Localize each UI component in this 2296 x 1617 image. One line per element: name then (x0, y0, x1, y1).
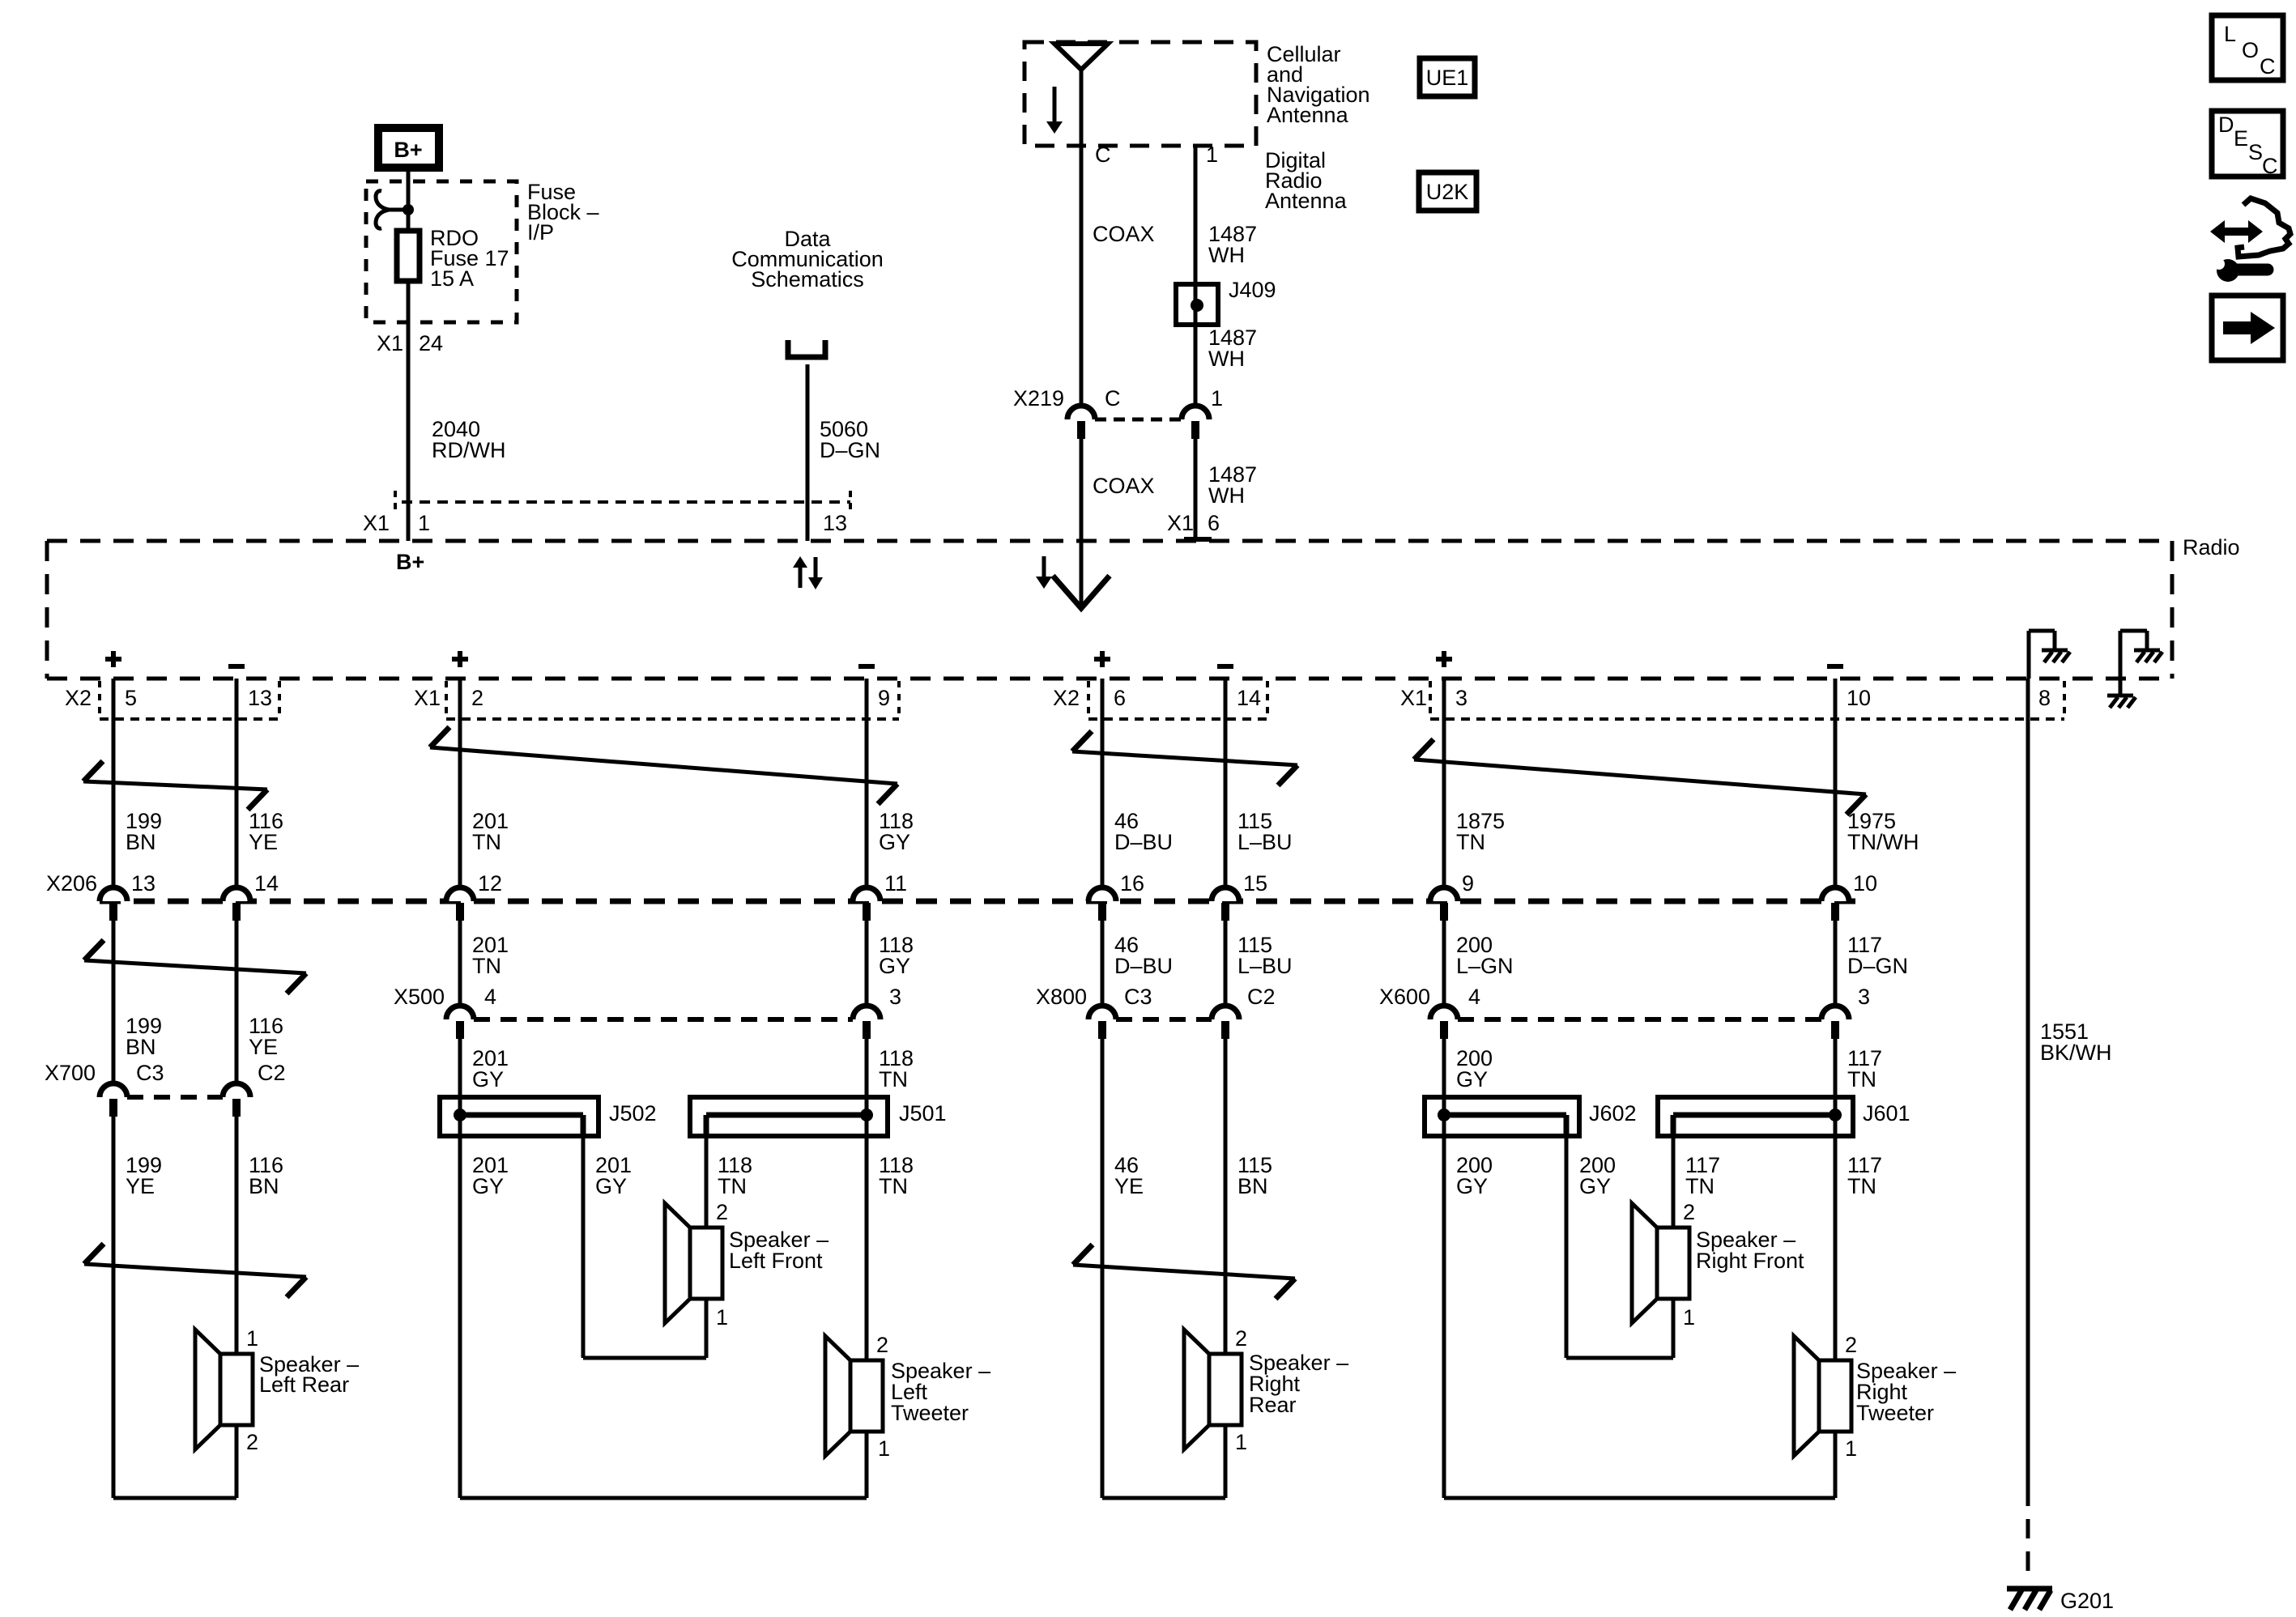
ground G201 symbol (2007, 1586, 2052, 1592)
X600 stub 4 (1440, 1021, 1448, 1039)
antenna mast wire (COAX) (1080, 70, 1084, 406)
X206 arc pin 15 (1212, 887, 1239, 901)
svg-text:Left Rear: Left Rear (259, 1372, 349, 1397)
wire bottom loop right front/tweeter (1444, 1496, 1835, 1500)
svg-text:YE: YE (249, 830, 278, 854)
wire J601 branch to RF speaker feed (1672, 1136, 1676, 1228)
X500 arc pin 3 (853, 1006, 880, 1019)
svg-text:C: C (1095, 143, 1111, 167)
wire J502 branch to LF speaker return (581, 1136, 586, 1358)
svg-text:C: C (2260, 54, 2276, 79)
wire B+ to fuse block (407, 172, 411, 230)
svg-text:14: 14 (1237, 686, 1261, 710)
twisted pair symbol RF above X206 (1414, 760, 1866, 794)
polarity + at pin x=1783 (1436, 657, 1452, 662)
svg-text:GY: GY (879, 954, 910, 978)
X500 stub 4 (456, 1021, 464, 1039)
svg-text:D–GN: D–GN (1847, 954, 1908, 978)
splice pack J602 (1425, 1097, 1579, 1136)
junction dot at fuse (403, 204, 414, 215)
B+ power symbol (378, 128, 439, 168)
svg-text:13: 13 (248, 686, 272, 710)
icon adjust: hand outline (2238, 198, 2290, 257)
polarity + at pin x=1361 (1094, 657, 1110, 662)
wire 1487 to radio pin X1-6 (1194, 439, 1198, 541)
svg-text:D–GN: D–GN (820, 438, 880, 462)
wire X700-C2 down to left rear speaker (235, 1117, 239, 1354)
X206 pin stub 15 (1221, 903, 1229, 921)
svg-text:TN: TN (1685, 1174, 1715, 1198)
X500 stub 3 (863, 1021, 871, 1039)
svg-text:C2: C2 (1247, 985, 1276, 1009)
svg-text:16: 16 (1120, 871, 1144, 896)
wire radio to X206 x=1513 (1224, 679, 1228, 887)
wire RF speaker pin1 down (1672, 1299, 1676, 1358)
case ground wire below radio (2119, 679, 2123, 694)
svg-text:UE1: UE1 (1426, 66, 1469, 90)
svg-text:1: 1 (878, 1436, 890, 1461)
wire J602 branch to RF speaker return (1565, 1136, 1569, 1358)
connector dotted box pair 1 (98, 681, 101, 719)
coax wire to radio (1080, 439, 1084, 608)
wire X500-3 down through J501 to left tweeter (865, 1039, 869, 1360)
svg-text:D: D (2218, 113, 2234, 137)
speaker Left Rear (220, 1354, 253, 1425)
X219 pin stub 1 (1191, 421, 1199, 439)
svg-text:1: 1 (1235, 1430, 1247, 1454)
splice pack J502 (440, 1097, 598, 1136)
svg-text:J501: J501 (899, 1101, 947, 1126)
polarity + at pin x=568 (452, 657, 468, 662)
svg-text:GY: GY (595, 1174, 627, 1198)
antenna down arrow (1053, 87, 1057, 121)
connector dotted box pair 4 (1429, 681, 1432, 719)
svg-text:TN: TN (879, 1067, 908, 1091)
svg-text:24: 24 (419, 331, 443, 355)
icon next-page arrow box (2212, 296, 2283, 360)
svg-text:2: 2 (1683, 1200, 1695, 1224)
svg-text:2: 2 (1845, 1333, 1857, 1357)
polarity - at pin x=292 (228, 664, 245, 669)
X700 arc C3 (100, 1083, 127, 1097)
wire radio to X206 x=568 (458, 679, 462, 887)
X206 arc pin 11 (853, 887, 880, 901)
connector tick left (394, 491, 397, 513)
svg-text:8: 8 (2038, 686, 2051, 710)
twisted pair symbol LR mid (84, 960, 306, 973)
wire LF speaker pin1 down (705, 1299, 709, 1358)
X219 arc 1 (1182, 406, 1209, 419)
svg-text:BK/WH: BK/WH (2040, 1040, 2112, 1065)
svg-text:10: 10 (1853, 871, 1877, 896)
svg-text:G201: G201 (2060, 1589, 2114, 1613)
svg-text:COAX: COAX (1093, 474, 1155, 498)
fuse block I/P dashed box (366, 181, 517, 322)
chassis ground symbol internal 1 (2042, 649, 2068, 653)
svg-text:Antenna: Antenna (1265, 189, 1348, 213)
svg-text:WH: WH (1208, 483, 1245, 508)
X206 pin stub 9 (1440, 903, 1448, 921)
svg-text:X2: X2 (65, 686, 92, 710)
svg-text:E: E (2234, 126, 2248, 151)
svg-text:2: 2 (246, 1430, 258, 1454)
X206 arc pin 14 (223, 887, 250, 901)
svg-text:TN: TN (1847, 1067, 1876, 1091)
svg-text:J502: J502 (609, 1101, 657, 1126)
X700 stub C3 (109, 1099, 117, 1117)
svg-text:YE: YE (249, 1035, 278, 1059)
svg-text:2: 2 (716, 1200, 728, 1224)
svg-text:BN: BN (249, 1174, 279, 1198)
wire X600-3 down through J601 to right tweeter (1834, 1039, 1838, 1360)
wire J501 branch to LF speaker feed (705, 1136, 709, 1228)
svg-text:4: 4 (484, 985, 496, 1009)
svg-text:15 A: 15 A (430, 266, 474, 291)
X600 stub 3 (1831, 1021, 1839, 1039)
pin 8 ground wire inside radio (2027, 631, 2031, 679)
radio entry tick for coax pin (1184, 537, 1212, 542)
svg-text:TN: TN (718, 1174, 747, 1198)
wire X206 to mid connector x=568 (458, 921, 462, 1006)
svg-text:RD/WH: RD/WH (432, 438, 505, 462)
wire X600-4 down through J602 to bottom loop (1442, 1039, 1446, 1498)
radio dashed box bottom edge (47, 677, 2172, 681)
svg-text:1: 1 (716, 1305, 728, 1330)
svg-text:BN: BN (1237, 1174, 1268, 1198)
X206 pin stub 12 (456, 903, 464, 921)
icon adjust: double arrow (2222, 228, 2251, 236)
svg-text:TN: TN (1847, 1174, 1876, 1198)
svg-text:15: 15 (1243, 871, 1267, 896)
svg-text:2: 2 (876, 1333, 888, 1357)
antenna symbol (1054, 44, 1108, 70)
svg-text:YE: YE (126, 1174, 155, 1198)
svg-text:C: C (1105, 386, 1121, 411)
svg-text:X800: X800 (1036, 985, 1087, 1009)
svg-text:WH: WH (1208, 243, 1245, 267)
wire radio to X206 x=292 (235, 679, 239, 887)
svg-text:GY: GY (879, 830, 910, 854)
wire X206 to X700 x=292 (235, 921, 239, 1083)
svg-text:D–BU: D–BU (1114, 954, 1173, 978)
connector dotted box pair 3 (1087, 681, 1090, 719)
X500 arc pin 4 (446, 1006, 474, 1019)
wire radio to X206 x=140 (112, 679, 116, 887)
svg-text:Tweeter: Tweeter (1856, 1401, 1934, 1425)
svg-text:X2: X2 (1053, 686, 1080, 710)
connector X206 dashed line (100, 899, 1863, 904)
svg-text:TN/WH: TN/WH (1847, 830, 1919, 854)
chassis ground symbol internal 2 (2134, 649, 2160, 653)
wire X500-4 down through J502 to bottom loop (458, 1039, 462, 1498)
connector dotted box pair 2 (445, 681, 448, 719)
X600 arc pin 3 (1821, 1006, 1849, 1019)
wire X800-C3 down to bottom loop (1101, 1039, 1105, 1498)
polarity - at pin x=1513 (1217, 664, 1233, 669)
svg-text:X1: X1 (363, 511, 390, 535)
wire 1487 WH from antenna box (1194, 146, 1198, 406)
svg-text:1: 1 (418, 511, 430, 535)
svg-text:BN: BN (126, 830, 156, 854)
speaker Right Tweeter (1819, 1360, 1851, 1432)
splice J409 (1176, 284, 1218, 325)
wire X800-C2 down to right rear speaker (1224, 1039, 1228, 1354)
splice pack J501 (690, 1097, 888, 1136)
svg-text:L–BU: L–BU (1237, 830, 1293, 854)
svg-text:J409: J409 (1229, 278, 1276, 302)
RPO box U2K (1419, 172, 1476, 211)
off-page bracket (788, 340, 825, 357)
svg-text:I/P: I/P (527, 220, 554, 245)
svg-text:X206: X206 (46, 871, 97, 896)
wire radio to X206 x=2266 (1834, 679, 1838, 887)
svg-text:1: 1 (1206, 143, 1218, 167)
svg-text:L–GN: L–GN (1456, 954, 1514, 978)
svg-text:GY: GY (1456, 1174, 1488, 1198)
X206 arc pin 9 (1430, 887, 1458, 901)
X206 pin stub 16 (1098, 903, 1106, 921)
icon LOC box (2212, 15, 2283, 80)
svg-text:L–BU: L–BU (1237, 954, 1293, 978)
svg-text:11: 11 (884, 871, 907, 896)
chassis ground symbol case (2107, 694, 2133, 698)
svg-text:X1: X1 (414, 686, 441, 710)
svg-text:Rear: Rear (1249, 1393, 1297, 1417)
svg-text:9: 9 (1462, 871, 1474, 896)
svg-text:Right Front: Right Front (1696, 1249, 1804, 1273)
twisted pair symbol RR lower (1073, 1265, 1295, 1279)
svg-text:Radio: Radio (2183, 535, 2240, 560)
svg-text:GY: GY (1579, 1174, 1611, 1198)
svg-text:9: 9 (878, 686, 890, 710)
icon DESC box (2212, 111, 2283, 177)
wire bottom loop left front/tweeter (460, 1496, 867, 1500)
svg-text:TN: TN (472, 954, 501, 978)
wire data comm to radio pin 13 (806, 364, 810, 541)
svg-text:GY: GY (1456, 1067, 1488, 1091)
wire radio to X206 x=1783 (1442, 679, 1446, 887)
wire fuse to radio pin X1-1 (407, 281, 411, 541)
svg-text:J602: J602 (1589, 1101, 1637, 1126)
antenna feed arrowhead inside radio (1053, 576, 1110, 608)
svg-text:O: O (2242, 38, 2259, 62)
small down arrow at coax entry (1042, 556, 1046, 577)
svg-text:6: 6 (1114, 686, 1126, 710)
svg-text:C3: C3 (1124, 985, 1152, 1009)
X600 arc pin 4 (1430, 1006, 1458, 1019)
radio dashed box right edge (2170, 541, 2175, 679)
X800 stub C3 (1098, 1021, 1106, 1039)
svg-text:3: 3 (1455, 686, 1467, 710)
X206 pin stub 14 (232, 903, 241, 921)
X206 arc pin 13 (100, 887, 127, 901)
wire bottom loop left rear (113, 1496, 236, 1500)
X206 arc pin 16 (1088, 887, 1116, 901)
svg-text:13: 13 (131, 871, 155, 896)
svg-text:10: 10 (1847, 686, 1871, 710)
svg-text:1: 1 (1845, 1436, 1857, 1461)
svg-text:GY: GY (472, 1067, 504, 1091)
fuse clip element (387, 208, 409, 212)
svg-text:X500: X500 (394, 985, 445, 1009)
svg-text:TN: TN (1456, 830, 1485, 854)
X800 arc C3 (1088, 1006, 1116, 1019)
svg-text:X219: X219 (1013, 386, 1064, 411)
svg-text:X600: X600 (1379, 985, 1430, 1009)
svg-text:U2K: U2K (1426, 180, 1469, 204)
polarity - at pin x=2266 (1827, 664, 1843, 669)
svg-text:B+: B+ (396, 550, 424, 574)
connector row X1 dashed line (402, 500, 850, 504)
svg-text:C: C (2262, 154, 2278, 178)
svg-text:14: 14 (254, 871, 279, 896)
wire radio to X206 x=1361 (1101, 679, 1105, 887)
X700 arc C2 (223, 1083, 250, 1097)
wire radio pin 8 to G201 (1551) (2026, 679, 2030, 1487)
twisted pair symbol LR lower (84, 1264, 306, 1277)
RPO box UE1 (1420, 58, 1475, 96)
svg-text:12: 12 (478, 871, 502, 896)
X206 arc pin 10 (1821, 887, 1849, 901)
splice pack J601 (1658, 1097, 1853, 1136)
svg-text:Tweeter: Tweeter (891, 1401, 969, 1425)
speaker Left Tweeter (850, 1360, 883, 1432)
internal ground wire 2 (2119, 631, 2123, 679)
svg-text:WH: WH (1208, 347, 1245, 371)
twisted pair symbol RR above X206 (1072, 751, 1297, 765)
svg-text:TN: TN (879, 1174, 908, 1198)
svg-text:S: S (2248, 140, 2263, 164)
svg-text:X1: X1 (1167, 511, 1194, 535)
svg-text:X700: X700 (45, 1061, 96, 1085)
X800 arc C2 (1212, 1006, 1239, 1019)
svg-text:J601: J601 (1863, 1101, 1910, 1126)
wire X206 to mid connector x=1783 (1442, 921, 1446, 1006)
wire X206 to mid connector x=1361 (1101, 921, 1105, 1006)
svg-text:D–BU: D–BU (1114, 830, 1173, 854)
polarity + at pin x=140 (105, 657, 121, 662)
svg-text:4: 4 (1468, 985, 1480, 1009)
svg-text:B+: B+ (394, 138, 422, 162)
wire bottom loop right rear (1102, 1496, 1225, 1500)
svg-text:13: 13 (823, 511, 847, 535)
wire X206 to mid connector x=2266 (1834, 921, 1838, 1006)
svg-text:3: 3 (889, 985, 901, 1009)
svg-text:3: 3 (1858, 985, 1870, 1009)
X219 pin stub C (1077, 421, 1085, 439)
svg-text:Schematics: Schematics (751, 267, 864, 291)
svg-text:C3: C3 (136, 1061, 164, 1085)
svg-text:2: 2 (471, 686, 483, 710)
speaker Right Rear (1209, 1354, 1242, 1425)
svg-text:2: 2 (1235, 1326, 1247, 1351)
X206 arc pin 12 (446, 887, 474, 901)
X219 arc C (1067, 406, 1095, 419)
twisted pair symbol LF above X206 (430, 747, 897, 784)
svg-text:COAX: COAX (1093, 222, 1155, 246)
X800 stub C2 (1221, 1021, 1229, 1039)
svg-text:X1: X1 (377, 331, 403, 355)
svg-text:GY: GY (472, 1174, 504, 1198)
connector tick right (849, 491, 852, 513)
wire X206 to mid connector x=1513 (1224, 921, 1228, 1006)
speaker Left Front (690, 1228, 722, 1299)
fuse RDO Fuse 17 15A (397, 231, 420, 281)
radio dashed box left edge (45, 541, 49, 679)
svg-text:L: L (2224, 22, 2236, 46)
svg-text:X1: X1 (1400, 686, 1427, 710)
dashed end of 1551 wire (2026, 1487, 2030, 1584)
svg-text:5: 5 (125, 686, 137, 710)
wire X700-C3 down to bottom loop (112, 1117, 116, 1498)
svg-text:Antenna: Antenna (1267, 103, 1349, 127)
icon adjust: wrench (2217, 259, 2239, 282)
serial data down arrow (814, 557, 818, 577)
svg-text:1: 1 (246, 1326, 258, 1351)
svg-text:1: 1 (1683, 1305, 1695, 1330)
svg-text:BN: BN (126, 1035, 156, 1059)
X700 stub C2 (232, 1099, 241, 1117)
wire X206 to X700 x=140 (112, 921, 116, 1083)
X206 pin stub 13 (109, 903, 117, 921)
svg-text:Left Front: Left Front (729, 1249, 823, 1273)
svg-text:YE: YE (1114, 1174, 1144, 1198)
wire X206 to mid connector x=1070 (865, 921, 869, 1006)
speaker Right Front (1657, 1228, 1689, 1299)
svg-text:1: 1 (1211, 386, 1223, 411)
serial data up arrow (799, 568, 803, 588)
svg-text:TN: TN (472, 830, 501, 854)
cellular antenna dashed box (1024, 42, 1256, 146)
polarity - at pin x=1070 (858, 664, 875, 669)
radio dashed box top edge (47, 539, 2172, 543)
wire radio to X206 x=1070 (865, 679, 869, 887)
svg-text:6: 6 (1208, 511, 1220, 535)
X206 pin stub 11 (863, 903, 871, 921)
twisted pair symbol LR above X206 (83, 781, 267, 789)
X206 pin stub 10 (1831, 903, 1839, 921)
svg-text:C2: C2 (258, 1061, 286, 1085)
